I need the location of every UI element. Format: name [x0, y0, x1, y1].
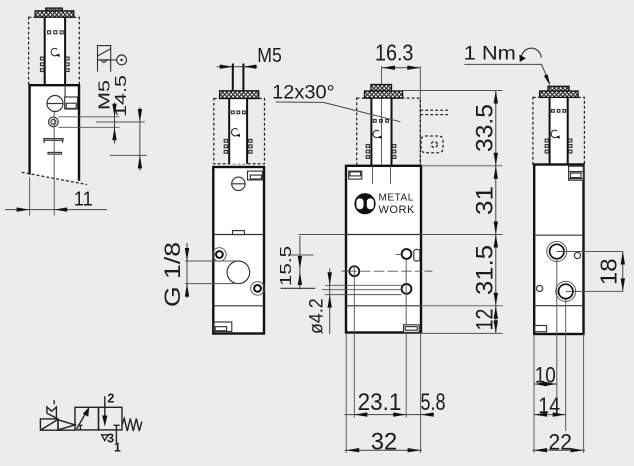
svg-text:16.3: 16.3 [375, 39, 413, 65]
svg-text:G 1/8: G 1/8 [160, 242, 185, 307]
svg-text:1 Nm: 1 Nm [464, 43, 516, 65]
svg-text:ø4.2: ø4.2 [306, 298, 328, 334]
svg-text:15.5: 15.5 [278, 246, 295, 286]
svg-text:10: 10 [535, 362, 556, 387]
svg-text:18: 18 [596, 258, 622, 285]
svg-text:1: 1 [114, 441, 121, 455]
svg-text:12: 12 [472, 309, 499, 331]
svg-text:31.5: 31.5 [472, 245, 499, 295]
svg-text:33.5: 33.5 [472, 104, 499, 152]
svg-text:14.5: 14.5 [113, 75, 130, 117]
svg-text:WORK: WORK [379, 204, 416, 216]
svg-text:32: 32 [371, 428, 398, 455]
svg-text:11: 11 [74, 187, 93, 210]
svg-text:22: 22 [549, 429, 572, 454]
svg-text:2: 2 [107, 392, 114, 406]
svg-text:31: 31 [472, 186, 499, 215]
svg-text:5.8: 5.8 [421, 389, 446, 416]
svg-text:METAL: METAL [379, 193, 414, 204]
svg-text:M5: M5 [257, 45, 282, 67]
svg-text:M5: M5 [97, 80, 114, 110]
svg-text:14: 14 [538, 393, 560, 418]
svg-text:12x30°: 12x30° [272, 82, 335, 103]
svg-text:23.1: 23.1 [358, 389, 402, 416]
